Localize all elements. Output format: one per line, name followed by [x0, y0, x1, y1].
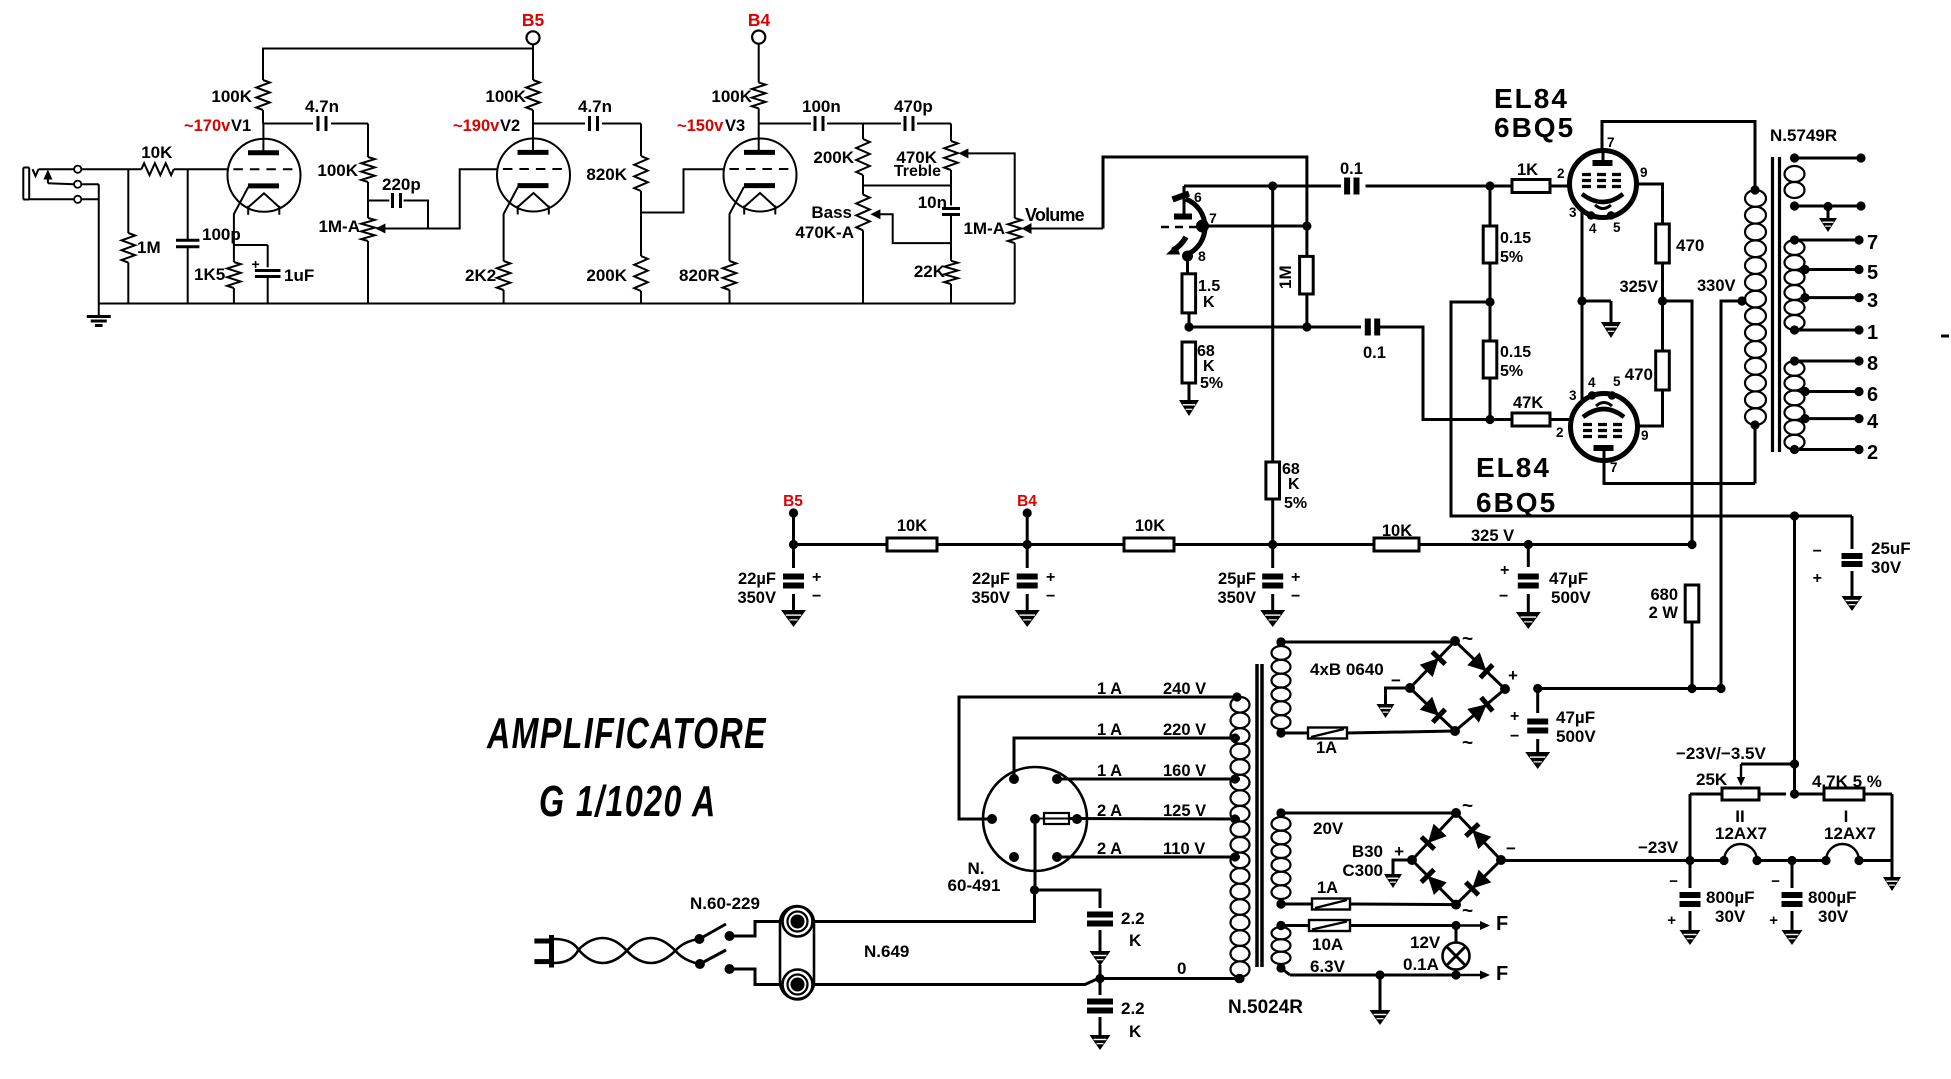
wire EL84#2 screen	[1637, 390, 1663, 426]
svg-text:1M: 1M	[1276, 265, 1295, 289]
capacitor 4.7n (V2-V3 coupling)	[590, 116, 598, 131]
svg-text:4: 4	[1588, 375, 1596, 390]
label 2A 110V	[1097, 840, 1205, 858]
label 470K	[896, 148, 937, 167]
bridge rectifier B30 C300	[1407, 808, 1506, 910]
HT winding wire bottom	[1276, 728, 1455, 737]
capacitor 0.1 (to EL84 upper)	[1347, 178, 1356, 195]
label 2.2K #1	[1121, 909, 1145, 950]
svg-text:+: +	[1508, 666, 1518, 685]
input jack J1	[23, 168, 38, 200]
wire 110V	[1057, 856, 1240, 859]
svg-text:−: −	[812, 588, 821, 605]
svg-text:6: 6	[1867, 384, 1878, 406]
resistor 68K 5% (splitter plate)	[1266, 462, 1280, 499]
B+ rail wire	[789, 540, 1697, 549]
mains cord twists	[554, 938, 700, 964]
wire treble bottom row	[863, 185, 951, 187]
voltage selector N.60-491	[983, 767, 1087, 871]
tube V4 phase splitter half-triode	[1161, 186, 1209, 262]
potentiometer Treble 470K	[944, 141, 958, 186]
label 6.3V	[1310, 957, 1346, 976]
label 4.7K 5%	[1812, 772, 1882, 791]
resistor 200K (V2 stage)	[634, 213, 648, 304]
labels EL84#2 pins	[1556, 374, 1649, 475]
label 100K (V2 grid)	[317, 161, 358, 180]
svg-text:220 V: 220 V	[1163, 721, 1206, 739]
mains plug	[534, 935, 551, 968]
svg-text:0.15: 0.15	[1500, 344, 1531, 361]
svg-text:160 V: 160 V	[1163, 762, 1206, 780]
wire B5 feed	[263, 44, 533, 80]
wire input tip row	[39, 168, 142, 170]
svg-text:B4: B4	[748, 10, 771, 30]
tube EL84 #2	[1571, 391, 1638, 460]
label -23V	[1638, 838, 1679, 857]
svg-text:+: +	[1500, 562, 1509, 579]
ground (input)	[87, 304, 111, 326]
labels 25uF 30V	[1813, 539, 1911, 587]
label 1M-A vol	[963, 219, 1005, 238]
wire 10K to V1 grid	[174, 168, 228, 170]
label 10K rail3	[1382, 522, 1412, 540]
label 4xB 0640	[1310, 660, 1384, 679]
splitter cathode lead	[1186, 256, 1189, 274]
label Volume	[1025, 205, 1085, 225]
label 325V (screens)	[1619, 278, 1658, 296]
OT secondary winding A	[1785, 235, 1864, 334]
svg-text:0.1: 0.1	[1363, 344, 1386, 362]
wire 68K b to rail	[1271, 499, 1274, 545]
labels 22uF#2	[971, 569, 1055, 607]
label 100K V3	[711, 87, 752, 106]
svg-text:6.3V: 6.3V	[1310, 957, 1346, 976]
OT secondary feedback winding	[1785, 153, 1866, 211]
svg-text:470p: 470p	[894, 97, 933, 116]
resistor 1K (grid stopper)	[1512, 180, 1550, 193]
svg-text:B5: B5	[783, 493, 803, 510]
svg-text:22µF: 22µF	[738, 570, 776, 588]
svg-text:100K: 100K	[485, 87, 526, 106]
svg-text:~: ~	[1462, 796, 1473, 817]
wire splitter grid row	[1207, 221, 1312, 230]
label 0.1 b	[1363, 344, 1386, 362]
svg-text:1 A: 1 A	[1097, 721, 1122, 739]
wire cathode row	[1184, 313, 1361, 332]
bias wiper arrow	[1737, 764, 1795, 794]
wire 220V	[1014, 738, 1240, 779]
svg-text:K: K	[1288, 476, 1300, 493]
svg-text:800µF: 800µF	[1706, 888, 1755, 907]
resistor 68K 5% (splitter tail)	[1182, 342, 1196, 383]
wire B4 feed	[758, 44, 760, 83]
svg-text:10K: 10K	[141, 143, 173, 162]
svg-text:5%: 5%	[1500, 249, 1523, 266]
wire jack ring/sleeve to ground	[29, 183, 99, 303]
svg-text:1M: 1M	[137, 238, 161, 257]
svg-text:0.1A: 0.1A	[1403, 955, 1439, 974]
label 10K rail2	[1135, 517, 1165, 535]
labels 800uF II	[1667, 873, 1754, 929]
resistor 820R (V3 cathode)	[723, 261, 737, 304]
svg-text:0.15: 0.15	[1500, 230, 1531, 247]
svg-text:+: +	[1291, 569, 1300, 586]
svg-text:3: 3	[1569, 205, 1577, 220]
svg-text:4.7K 5 %: 4.7K 5 %	[1812, 772, 1882, 791]
resistor 200K (tone)	[856, 124, 870, 186]
svg-text:100K: 100K	[211, 87, 252, 106]
label 220p	[382, 175, 421, 194]
capacitor 25uF 350V	[1262, 545, 1283, 611]
svg-text:1K5: 1K5	[194, 265, 225, 284]
svg-text:10K: 10K	[1382, 522, 1412, 540]
preamp ground rail	[99, 303, 1015, 305]
label 2A 125V	[1097, 802, 1206, 820]
svg-text:~: ~	[1462, 733, 1473, 754]
potentiometer Bass 470K-A	[856, 186, 870, 304]
fuse 1A (HT)	[1308, 728, 1347, 739]
ground (2.2K#1)	[1090, 951, 1111, 979]
label 10K	[141, 143, 173, 162]
label + B30	[1394, 842, 1404, 861]
label 1M-A	[318, 217, 360, 236]
label B4	[748, 10, 771, 30]
wire V3 plate node	[759, 123, 811, 125]
wire splitter plate row	[1184, 181, 1341, 190]
ground (B30+)	[1384, 874, 1402, 888]
svg-text:12V: 12V	[1410, 933, 1441, 952]
svg-text:2 A: 2 A	[1097, 840, 1122, 858]
label ~170v V1	[184, 117, 251, 135]
labels 800uF I	[1769, 873, 1856, 929]
label 25K	[1696, 770, 1728, 789]
wire selector common	[814, 819, 1039, 922]
ground (47uF#2)	[1525, 752, 1550, 769]
wire splitter plate load drop	[1271, 186, 1274, 462]
svg-text:F: F	[1496, 963, 1508, 985]
svg-text:30V: 30V	[1818, 907, 1849, 926]
label EL84 #1	[1494, 83, 1575, 143]
resistor 22K	[944, 243, 958, 303]
resistor 1.5K (splitter cathode)	[1182, 274, 1196, 313]
svg-text:220p: 220p	[382, 175, 421, 194]
wire cathode to 1uF	[234, 245, 268, 267]
svg-text:5: 5	[1867, 262, 1878, 284]
label 200K tone	[813, 148, 854, 167]
fuse 1A (20V)	[1312, 899, 1350, 910]
label 47K	[1513, 394, 1543, 412]
label 100K V1	[211, 87, 252, 106]
label 12V	[1410, 933, 1441, 952]
svg-text:100n: 100n	[802, 97, 841, 116]
svg-text:−: −	[1510, 728, 1519, 745]
label 330V	[1697, 277, 1736, 295]
label 1A 20V	[1317, 879, 1338, 897]
svg-text:1A: 1A	[1317, 879, 1338, 897]
ground (800uF I)	[1782, 930, 1803, 945]
svg-text:4xB 0640: 4xB 0640	[1310, 660, 1384, 679]
label 1A 240V	[1097, 680, 1206, 698]
label ~ bottom	[1462, 733, 1473, 754]
svg-text:22K: 22K	[914, 262, 946, 281]
wire 470p to treble	[917, 124, 951, 142]
ground (47uF#1)	[1516, 612, 1541, 629]
svg-text:~: ~	[1462, 901, 1473, 922]
bridge rectifier 4xB 0640	[1405, 636, 1510, 736]
svg-text:0: 0	[1177, 959, 1186, 978]
label 470 a	[1676, 236, 1704, 255]
capacitor 470p	[905, 116, 913, 131]
label 470K-A	[795, 223, 854, 242]
svg-text:22µF: 22µF	[972, 570, 1010, 588]
label N.649	[864, 942, 909, 961]
resistor 10K (grid stopper V1)	[141, 163, 173, 175]
label N. 60-491	[948, 859, 1001, 895]
label 10K rail1	[897, 517, 927, 535]
wire EL84#1 plate to OT	[1602, 122, 1755, 191]
V3 plate lead	[758, 124, 760, 153]
svg-text:~190v: ~190v	[453, 117, 500, 135]
PT core	[1257, 664, 1262, 967]
svg-text:820K: 820K	[586, 165, 627, 184]
svg-text:−: −	[1499, 588, 1508, 605]
svg-text:N.5024R: N.5024R	[1228, 997, 1303, 1018]
svg-text:30V: 30V	[1871, 558, 1902, 577]
HT winding wire top	[1276, 637, 1455, 646]
V1 plate lead	[262, 124, 264, 153]
svg-text:+: +	[1394, 842, 1404, 861]
label -23V/-3.5V	[1676, 744, 1766, 763]
svg-text:+: +	[1769, 912, 1778, 929]
svg-text:6: 6	[1194, 189, 1202, 205]
wire B30 plus to ground	[1393, 860, 1412, 874]
svg-text:K: K	[1203, 294, 1215, 311]
svg-text:325V: 325V	[1619, 278, 1658, 296]
wire EL84 cathodes to ground	[1577, 211, 1611, 401]
label N.5749R	[1770, 126, 1837, 145]
svg-text:9: 9	[1640, 165, 1648, 180]
label 1A HT	[1316, 739, 1337, 757]
Bass wiper arrow	[870, 209, 951, 243]
resistor 0.15 5% (grid leak upper)	[1483, 186, 1497, 302]
label 470p	[894, 97, 933, 116]
PT primary winding	[1231, 692, 1250, 983]
pilot lamp 12V 0.1A	[1443, 926, 1470, 976]
svg-text:60-491: 60-491	[948, 876, 1001, 895]
svg-text:3: 3	[1867, 290, 1878, 312]
label ~ B30 bottom	[1462, 901, 1473, 922]
svg-text:10A: 10A	[1312, 935, 1343, 954]
label 0	[1177, 959, 1186, 978]
wire EL84#2 plate to OT	[1604, 461, 1755, 484]
OT secondary winding B	[1785, 356, 1864, 454]
svg-text:V2: V2	[500, 117, 520, 135]
wire screen junction	[1658, 263, 1692, 545]
label 1K	[1517, 161, 1538, 179]
6.3V wire bottom	[1281, 968, 1461, 980]
svg-text:3: 3	[1569, 388, 1577, 403]
potentiometer 1M-A (V1 vol)	[361, 201, 375, 304]
svg-text:+: +	[1667, 912, 1676, 929]
svg-text:5: 5	[1613, 374, 1621, 389]
svg-text:1.5: 1.5	[1198, 278, 1220, 295]
6.3V wire top	[1276, 921, 1460, 930]
label ~ B30 top	[1462, 796, 1473, 817]
svg-text:~150v: ~150v	[677, 117, 724, 135]
arrow F top	[1456, 913, 1508, 935]
label N.5024R	[1228, 997, 1303, 1018]
wire 4.7K right down	[1891, 794, 1894, 877]
ground (6.3V ct)	[1370, 975, 1391, 1025]
bias feed vertical	[1790, 516, 1799, 769]
svg-text:6BQ5: 6BQ5	[1494, 112, 1575, 143]
capacitor 22uF 350V (B5)	[783, 545, 804, 611]
svg-text:−23V/−3.5V: −23V/−3.5V	[1676, 744, 1766, 763]
svg-text:−: −	[1771, 873, 1780, 890]
resistor 680 2W	[1685, 585, 1699, 690]
svg-text:125 V: 125 V	[1163, 802, 1206, 820]
label 10A	[1312, 935, 1343, 954]
svg-text:V1: V1	[231, 117, 251, 135]
svg-text:+: +	[1510, 708, 1519, 725]
mains filter N.649	[780, 906, 814, 1000]
ground (bridge-)	[1377, 704, 1395, 718]
resistor 100K (V2 plate load)	[526, 80, 540, 124]
label 325V rail	[1471, 527, 1514, 545]
resistor 100K (V3 plate load)	[752, 83, 766, 124]
V2 plate lead	[532, 124, 534, 153]
svg-text:8: 8	[1867, 353, 1878, 375]
wire 4.7n2 to 820K	[602, 124, 641, 157]
svg-text:7: 7	[1607, 135, 1615, 150]
svg-text:25uF: 25uF	[1871, 539, 1911, 558]
svg-text:10K: 10K	[897, 517, 927, 535]
label 20V	[1313, 819, 1344, 838]
svg-text:47K: 47K	[1513, 394, 1543, 412]
svg-text:2 W: 2 W	[1649, 604, 1679, 622]
svg-text:1 A: 1 A	[1097, 762, 1122, 780]
jack insertion arrow	[43, 170, 52, 184]
svg-text:−: −	[1046, 588, 1055, 605]
OT primary winding	[1745, 185, 1766, 429]
label + bridge	[1508, 666, 1518, 685]
capacitor 22uF 350V (B4)	[1017, 545, 1038, 611]
potentiometer Volume 1M-A	[1008, 218, 1022, 304]
label 10n	[918, 193, 947, 212]
Treble wiper arrow	[958, 148, 1014, 218]
svg-text:2: 2	[1557, 166, 1565, 181]
capacitor 220p	[368, 193, 428, 229]
wire V2 plate node	[533, 123, 585, 125]
label N.60-229	[690, 894, 760, 913]
label ~150v V3	[677, 117, 745, 135]
labels 22uF#1	[737, 569, 821, 607]
svg-text:5%: 5%	[1284, 495, 1307, 512]
ground (25uF 30V)	[1842, 596, 1863, 611]
ground (25uF 350V)	[1260, 610, 1285, 627]
labels 25uF 350V	[1217, 569, 1300, 607]
svg-text:330V: 330V	[1697, 277, 1736, 295]
label EL84 #2	[1476, 452, 1557, 518]
PT 6.3V winding	[1272, 921, 1291, 973]
svg-text:5%: 5%	[1200, 375, 1223, 392]
svg-text:47µF: 47µF	[1556, 708, 1595, 727]
svg-text:V3: V3	[725, 117, 745, 135]
capacitor 0.1 (to EL84 lower)	[1368, 319, 1377, 336]
ground (heater end)	[1883, 877, 1901, 891]
V3 cathode lead	[730, 187, 745, 261]
label 68K 5%	[1197, 343, 1223, 392]
label 68K 5% b	[1282, 461, 1307, 512]
PT 20V winding	[1272, 808, 1291, 908]
ground (feedback tap)	[1819, 207, 1837, 233]
svg-text:Volume: Volume	[1025, 205, 1085, 225]
label 1A 160V	[1097, 762, 1206, 780]
label 2K2	[465, 266, 496, 285]
label 0.15 5% b	[1500, 344, 1531, 380]
svg-text:1 A: 1 A	[1097, 680, 1122, 698]
svg-text:N.649: N.649	[864, 942, 909, 961]
wire 0.1b to 47K	[1380, 327, 1513, 424]
svg-text:EL84: EL84	[1476, 452, 1551, 483]
capacitor 47uF 500V (reservoir)	[1527, 689, 1548, 753]
tube V3 triode	[724, 139, 797, 215]
svg-text:1: 1	[1867, 322, 1878, 344]
svg-text:7: 7	[1610, 460, 1618, 475]
svg-text:1M-A: 1M-A	[963, 219, 1005, 238]
svg-text:30V: 30V	[1715, 907, 1746, 926]
svg-text:K: K	[1129, 931, 1142, 950]
svg-text:C300: C300	[1342, 861, 1383, 880]
label 1K5	[194, 265, 225, 284]
capacitor 10n	[942, 186, 960, 244]
svg-text:2: 2	[1556, 425, 1564, 440]
svg-text:Treble: Treble	[894, 163, 941, 180]
labels EL84#1 pins	[1557, 135, 1648, 236]
ground (22uF#2)	[1015, 610, 1040, 627]
mains switch	[694, 924, 734, 974]
label 0.15 5% a	[1500, 230, 1531, 266]
arrow F bottom	[1456, 963, 1508, 985]
svg-text:1uF: 1uF	[284, 266, 314, 285]
capacitor 2.2K (line filter 2)	[1087, 979, 1113, 1036]
wire B30 minus to -23V row	[1500, 859, 1503, 862]
capacitor 4.7n (V1-V2 coupling)	[318, 116, 326, 131]
capacitor 1uF (V1 cathode bypass)	[252, 256, 281, 304]
label 22K	[914, 262, 946, 281]
label B5 rail	[783, 493, 803, 510]
wire OT primary bottom	[1754, 425, 1757, 484]
svg-text:B30: B30	[1352, 842, 1383, 861]
label 1M splitter	[1276, 265, 1295, 289]
label pin6	[1194, 189, 1202, 205]
label 0.1A	[1403, 955, 1439, 974]
svg-text:1M-A: 1M-A	[318, 217, 360, 236]
svg-text:350V: 350V	[737, 589, 776, 607]
OT core	[1773, 157, 1780, 452]
svg-text:25K: 25K	[1696, 770, 1728, 789]
resistor 100K (V1 plate load)	[256, 49, 270, 124]
labels secondary taps	[1867, 232, 1879, 464]
svg-text:10K: 10K	[1135, 517, 1165, 535]
tube V1 triode	[228, 139, 301, 215]
svg-text:1A: 1A	[1316, 739, 1337, 757]
svg-text:~170v: ~170v	[184, 117, 231, 135]
svg-text:100K: 100K	[317, 161, 358, 180]
svg-text:F: F	[1496, 913, 1508, 935]
tube V2 triode	[497, 139, 570, 215]
label 820R	[679, 266, 720, 285]
